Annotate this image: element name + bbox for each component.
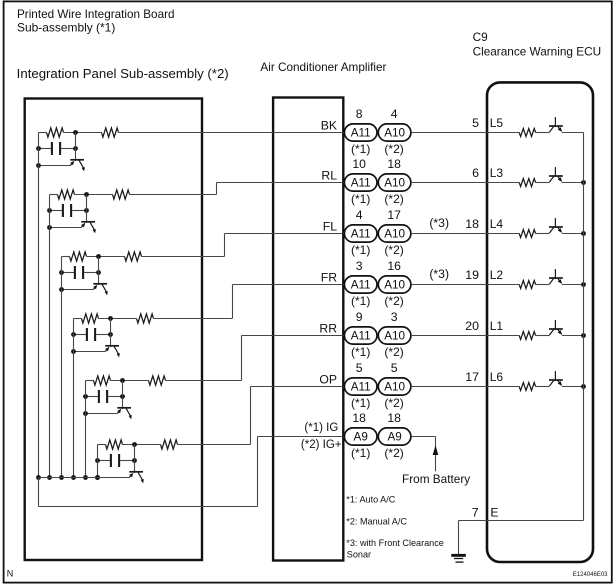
resistor ECU row L1 [519,332,535,340]
node ECU bus junction row3 [581,231,586,236]
svg-text:17: 17 [387,208,401,222]
svg-text:C9: C9 [473,30,488,44]
node block5 cap-left [83,394,88,399]
wire block5 cap right lead [108,396,122,398]
node block5 bus junction [83,475,88,480]
wire ground stem [458,521,460,555]
svg-text:7: 7 [472,505,479,519]
resistor ECU row L2 [519,281,535,289]
wire row6 transistor to bus [562,386,584,388]
transistor ECU row L1 [549,329,553,335]
node ECU bus junction row6 [581,384,586,389]
node block6 base-left [95,475,100,480]
wire return path down-right-up [38,478,40,507]
capacitor block4 [86,328,88,341]
node block3 collector junction [96,254,101,259]
svg-text:4: 4 [391,107,398,121]
svg-text:L3: L3 [490,166,504,180]
svg-text:(*1): (*1) [351,192,370,206]
svg-text:Integration Panel Sub-assembly: Integration Panel Sub-assembly (*2) [17,67,229,81]
node block3 cap-right [96,270,101,275]
wire block5 junction segment [111,380,149,382]
node block1 cap-left [36,146,41,151]
svg-text:N: N [7,569,14,579]
wire block5 top-left segment [86,380,94,382]
svg-text:Clearance Warning ECU: Clearance Warning ECU [473,45,601,59]
box: Integration Panel Sub-assembly [25,99,202,561]
svg-text:19: 19 [465,268,479,282]
wire row5 transistor to bus [562,335,584,337]
svg-text:(*2): (*2) [384,396,403,410]
svg-text:(*2): (*2) [384,142,403,156]
resistor ECU row L3 [519,179,535,187]
svg-text:A11: A11 [351,127,371,140]
svg-text:RR: RR [319,321,337,335]
transistor block3 emitter [102,284,107,292]
box: Clearance Warning ECU (rounded) [487,82,593,562]
svg-text:18: 18 [387,157,401,171]
svg-text:5: 5 [356,361,363,375]
wire row4 resistor to transistor [536,284,550,286]
transistor ECU row L5 [549,126,553,132]
transistor ECU row L6 [549,380,553,386]
wire row5 RR from block5 jog to A11 [166,380,242,382]
svg-text:10: 10 [352,157,366,171]
svg-text:(*2): (*2) [384,192,403,206]
transistor block5 base lead [86,413,118,415]
transistor block3 collector wire [98,257,100,286]
node block6 cap-left [95,458,100,463]
node block3 base-left [59,287,64,292]
ground symbol [451,554,466,557]
svg-text:A11: A11 [351,177,371,190]
node block4 cap-right [108,332,113,337]
capacitor block5 [98,390,100,403]
wire block1 left vertical [38,133,40,478]
transistor ECU row L2 [549,278,553,284]
svg-text:*3: with Front Clearance: *3: with Front Clearance [346,538,444,548]
wire row5 resistor to transistor [536,335,550,337]
svg-text:Air Conditioner Amplifier: Air Conditioner Amplifier [260,60,386,74]
svg-text:A11: A11 [351,228,371,241]
wire row2 resistor to transistor [536,182,550,184]
wire block2 top-left segment [50,194,58,196]
svg-text:5: 5 [472,116,479,130]
svg-text:(*2): (*2) [384,243,403,257]
transistor block1 base lead [39,165,71,167]
svg-text:3: 3 [356,259,363,273]
resistor block4 first [82,314,99,323]
node block2 collector junction [84,192,89,197]
connector pin A11 row3 [344,225,377,242]
node block1 cap-right [73,146,78,151]
wire block6 junction segment [123,444,161,446]
svg-text:3: 3 [391,310,398,324]
resistor ECU row L6 [519,383,535,391]
node block5 collector junction [120,378,125,383]
node block3 bus junction [59,475,64,480]
svg-text:(*2): (*2) [384,446,403,460]
connector pin A11 row6 [344,378,377,395]
wire A9 to battery tap [411,436,436,438]
svg-text:A10: A10 [384,177,405,190]
svg-text:18: 18 [465,217,479,231]
resistor block1 second [102,128,119,137]
transistor block5 base bar [117,407,131,409]
svg-text:(*1): (*1) [351,446,370,460]
transistor block6 base bar [129,471,143,473]
transistor block6 emitter [138,472,143,480]
node block4 base-left [71,349,76,354]
svg-text:E: E [490,505,498,519]
transistor block1 base bar [70,159,84,161]
connector pin A10 row3 [378,225,411,242]
svg-text:(*1): (*1) [351,142,370,156]
transistor block4 emitter [114,346,119,354]
connector pin A9 row7 [378,428,411,445]
node block2 base-left [47,225,52,230]
node block4 collector junction [108,316,113,321]
svg-text:16: 16 [387,259,401,273]
svg-text:(*2): (*2) [384,345,403,359]
node block2 cap-left [47,208,52,213]
node block1 base-left [36,163,41,168]
connector pin A11 row5 [344,327,377,344]
wire block3 cap right lead [84,272,98,274]
node block4 cap-left [71,332,76,337]
svg-text:A11: A11 [351,330,371,343]
wire block2 junction segment [75,194,113,196]
connector pin A10 row1 [378,124,411,141]
node block5 base-left [83,411,88,416]
node block2 bus junction [47,475,52,480]
wire row4 from A10 to ECU resistor [411,284,519,286]
wire block4 junction segment [99,318,137,320]
node block1 collector junction [73,130,78,135]
resistor block3 second [125,252,142,261]
svg-text:Sonar: Sonar [347,550,371,560]
wire block6 cap right lead [120,460,134,462]
svg-text:FL: FL [323,219,337,233]
svg-text:(*1): (*1) [351,294,370,308]
connector pin A10 row2 [378,174,411,191]
resistor block2 first [58,190,75,199]
svg-text:8: 8 [356,107,363,121]
wire block3 cap left lead [62,272,75,274]
wire row3 FL from block3 jog to A11 [142,256,225,258]
transistor block6 collector wire [134,445,136,474]
transistor block3 base bar [93,283,107,285]
node block3 cap-left [59,270,64,275]
node block4 bus junction [71,475,76,480]
wire row6 from A10 to ECU resistor [411,386,519,388]
wire row4 transistor to bus [562,284,584,286]
wire ECU right bus [583,133,585,521]
svg-text:A10: A10 [384,330,405,343]
wire block6 top-left segment [98,444,106,446]
capacitor block1 [51,142,53,155]
wire block1 top-left segment [39,132,47,134]
transistor block2 emitter [90,222,95,230]
connector pin A11 row4 [344,276,377,293]
wire row1 from A10 to ECU resistor [411,132,519,134]
svg-text:Sub-assembly (*1): Sub-assembly (*1) [17,21,115,35]
svg-text:17: 17 [465,370,479,384]
node block6 cap-right [132,458,137,463]
svg-text:(*2): (*2) [384,294,403,308]
svg-text:OP: OP [319,372,337,386]
wire block6 left vertical [97,445,99,478]
wire row3 from A10 to ECU resistor [411,233,519,235]
connector pin A11 row2 [344,174,377,191]
resistor block6 second [161,440,178,449]
resistor block6 first [106,440,123,449]
svg-text:(*1): (*1) [351,345,370,359]
wire block3 junction segment [87,256,125,258]
resistor block5 first [94,376,111,385]
wire block6 cap left lead [98,460,111,462]
svg-text:A10: A10 [384,228,405,241]
svg-text:E124046E03: E124046E03 [573,572,608,578]
node block6 collector junction [132,442,137,447]
transistor ECU row L4 [549,227,553,233]
wire block2 cap left lead [50,210,63,212]
node block5 cap-right [120,394,125,399]
connector pin A10 row4 [378,276,411,293]
transistor block1 collector wire [75,133,77,162]
svg-text:(*1) IG: (*1) IG [304,422,338,434]
resistor block2 second [113,190,130,199]
svg-text:FR: FR [321,270,337,284]
wire row4 FR from block4 jog to A11 [154,318,233,320]
wire block2 left vertical [49,195,51,478]
svg-text:L6: L6 [490,370,504,384]
wire block1 cap right lead [61,148,75,150]
wire block2 cap right lead [72,210,86,212]
capacitor block6 [110,454,112,467]
node ECU bus junction row5 [581,333,586,338]
transistor block2 base bar [81,221,95,223]
wire block5 left vertical [85,381,87,478]
transistor block3 base lead [62,289,94,291]
svg-text:L4: L4 [490,217,504,231]
wire row1 resistor to transistor [536,132,550,134]
resistor ECU row L5 [519,129,535,137]
resistor block1 first [47,128,64,137]
svg-text:A9: A9 [387,431,401,444]
svg-text:(*2) IG+: (*2) IG+ [301,439,342,451]
wire row1 BK from block1 to A11 [119,132,345,134]
connector pin A10 row5 [378,327,411,344]
transistor block4 collector wire [110,319,112,348]
wire row3 resistor to transistor [536,233,550,235]
wire row6 resistor to transistor [536,386,550,388]
wire row2 RL from block2 jog to A11 [130,194,217,196]
capacitor block2 [62,204,64,217]
transistor block4 base lead [74,351,106,353]
box: Air Conditioner Amplifier [273,98,343,561]
svg-text:18: 18 [352,411,366,425]
svg-text:L2: L2 [490,268,504,282]
wire block1 cap left lead [39,148,52,150]
transistor block6 base lead [98,477,130,479]
connector pin A9 row7 [344,428,377,445]
wire block4 left vertical [73,319,75,478]
node block1 bus junction [36,475,41,480]
transistor block2 base lead [50,227,82,229]
svg-text:L5: L5 [490,116,504,130]
wire E row [459,520,584,522]
svg-text:(*3): (*3) [429,267,449,281]
svg-text:L1: L1 [490,319,504,333]
svg-text:*1: Auto A/C: *1: Auto A/C [346,494,395,504]
wire row1 transistor to bus [562,132,584,134]
svg-text:BK: BK [321,118,337,132]
svg-text:A10: A10 [384,381,405,394]
svg-text:4: 4 [356,208,363,222]
transistor block5 collector wire [122,381,124,410]
svg-text:18: 18 [387,411,401,425]
svg-text:*2: Manual A/C: *2: Manual A/C [346,517,407,527]
transistor block2 collector wire [86,195,88,224]
svg-text:(*3): (*3) [429,216,449,230]
node ECU bus junction row4 [581,282,586,287]
resistor block3 first [70,252,87,261]
transistor ECU row L3 [549,176,553,182]
arrow from battery [433,445,439,455]
svg-text:From Battery: From Battery [402,472,470,486]
node ECU bus junction row2 [581,180,586,185]
wire block1 junction segment [64,132,102,134]
wire row5 from A10 to ECU resistor [411,335,519,337]
svg-text:9: 9 [356,310,363,324]
svg-text:A11: A11 [351,381,371,394]
svg-text:(*1): (*1) [351,396,370,410]
svg-text:Printed Wire Integration Board: Printed Wire Integration Board [17,7,175,21]
svg-text:RL: RL [321,168,337,182]
resistor block4 second [137,314,154,323]
wire row6 OP from block6 jog to A11 [178,444,251,446]
node block2 cap-right [84,208,89,213]
svg-text:20: 20 [465,319,479,333]
svg-text:6: 6 [472,166,479,180]
wire block3 top-left segment [62,256,70,258]
svg-text:A11: A11 [351,279,371,292]
transistor block5 emitter [126,408,131,416]
svg-text:A10: A10 [384,127,405,140]
node block6 bus junction [95,475,100,480]
svg-text:(*1): (*1) [351,243,370,257]
transistor block1 emitter [79,160,84,168]
capacitor block3 [74,266,76,279]
wire block5 cap left lead [86,396,99,398]
resistor ECU row L4 [519,230,535,238]
resistor block5 second [149,376,166,385]
connector pin A11 row1 [344,124,377,141]
transistor block4 base bar [105,345,119,347]
wire bottom bus [39,477,127,479]
svg-text:A9: A9 [354,431,368,444]
wire block4 top-left segment [74,318,82,320]
wire block4 cap right lead [96,334,110,336]
connector pin A10 row6 [378,378,411,395]
svg-text:A10: A10 [384,279,405,292]
wire block4 cap left lead [74,334,87,336]
svg-text:5: 5 [391,361,398,375]
wire row2 from A10 to ECU resistor [411,182,519,184]
wire block3 left vertical [61,257,63,478]
wire row3 transistor to bus [562,233,584,235]
wire row2 transistor to bus [562,182,584,184]
